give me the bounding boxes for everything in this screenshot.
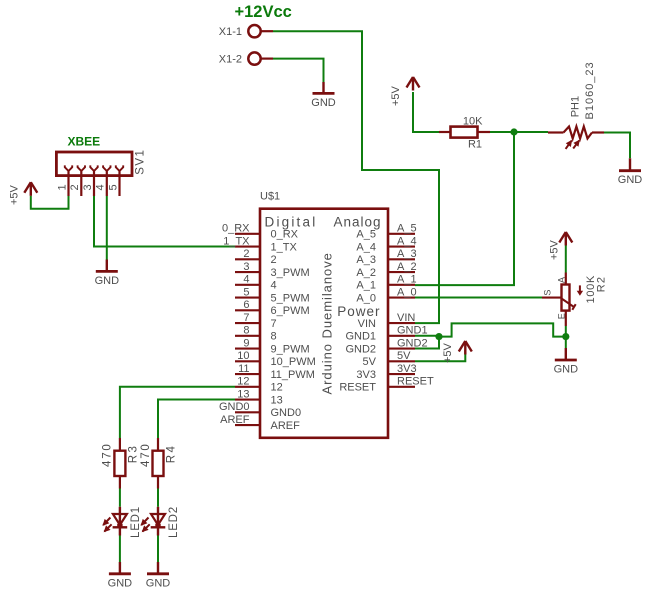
svg-text:GND1: GND1 <box>345 331 376 343</box>
svg-text:A_2: A_2 <box>356 267 376 279</box>
svg-text:8: 8 <box>271 331 277 343</box>
svg-text:7: 7 <box>271 318 277 330</box>
svg-text:+5V: +5V <box>390 85 402 106</box>
svg-text:10K: 10K <box>463 115 483 127</box>
svg-text:PH1: PH1 <box>570 96 582 117</box>
svg-text:9: 9 <box>243 337 249 349</box>
svg-text:3V3: 3V3 <box>356 369 376 381</box>
svg-text:VIN: VIN <box>358 318 376 330</box>
svg-text:SV1: SV1 <box>135 149 147 175</box>
svg-text:5_PWM: 5_PWM <box>271 292 310 304</box>
svg-text:2: 2 <box>271 254 277 266</box>
svg-text:2: 2 <box>243 248 249 260</box>
svg-text:3: 3 <box>243 261 249 273</box>
svg-text:B1060_23: B1060_23 <box>584 61 596 119</box>
svg-text:AREF: AREF <box>220 414 250 426</box>
svg-text:12: 12 <box>271 382 283 394</box>
svg-text:5: 5 <box>107 184 119 190</box>
svg-text:A_1: A_1 <box>397 274 417 286</box>
svg-text:10_PWM: 10_PWM <box>271 356 316 368</box>
svg-text:A_5: A_5 <box>356 229 376 241</box>
svg-text:3V3: 3V3 <box>397 363 417 375</box>
svg-text:GND: GND <box>146 577 171 589</box>
svg-text:470: 470 <box>140 442 152 467</box>
svg-text:A_0: A_0 <box>356 292 376 304</box>
svg-text:E: E <box>557 313 567 319</box>
svg-text:5V: 5V <box>363 356 377 368</box>
svg-text:12: 12 <box>237 376 249 388</box>
svg-text:10: 10 <box>237 350 249 362</box>
svg-text:AREF: AREF <box>271 420 301 432</box>
svg-text:GND0: GND0 <box>219 401 250 413</box>
svg-text:5: 5 <box>243 286 249 298</box>
svg-text:470: 470 <box>102 442 114 467</box>
svg-text:A_3: A_3 <box>356 254 376 266</box>
svg-text:GND0: GND0 <box>271 407 302 419</box>
svg-text:A_2: A_2 <box>397 261 417 273</box>
svg-text:13: 13 <box>237 388 249 400</box>
svg-text:+5V: +5V <box>442 342 454 363</box>
svg-text:R3: R3 <box>128 444 140 464</box>
svg-text:+12Vcc: +12Vcc <box>235 3 292 21</box>
svg-text:A_3: A_3 <box>397 248 417 260</box>
svg-text:0_RX: 0_RX <box>222 223 250 235</box>
svg-text:11: 11 <box>238 363 249 375</box>
svg-text:A_1: A_1 <box>356 280 376 292</box>
svg-text:LED2: LED2 <box>168 506 180 538</box>
svg-text:4: 4 <box>271 280 277 292</box>
svg-text:X1-2: X1-2 <box>219 53 242 65</box>
svg-text:A_5: A_5 <box>397 223 417 235</box>
svg-text:3_PWM: 3_PWM <box>271 267 310 279</box>
svg-text:RESET: RESET <box>397 376 434 388</box>
svg-text:8: 8 <box>243 325 249 337</box>
svg-text:LED1: LED1 <box>130 506 142 538</box>
svg-text:A_0: A_0 <box>397 286 417 298</box>
svg-text:R2: R2 <box>595 276 607 292</box>
svg-text:Arduino Duemilanove: Arduino Duemilanove <box>320 252 335 394</box>
svg-text:GND: GND <box>554 364 579 376</box>
svg-text:Analog: Analog <box>333 215 381 230</box>
svg-text:S: S <box>542 290 552 296</box>
svg-text:1_TX: 1_TX <box>223 235 250 247</box>
svg-text:VIN: VIN <box>397 312 415 324</box>
svg-text:U$1: U$1 <box>260 191 280 203</box>
svg-text:+5V: +5V <box>8 184 20 205</box>
svg-text:A: A <box>556 277 566 283</box>
svg-text:A_4: A_4 <box>356 241 376 253</box>
svg-text:9_PWM: 9_PWM <box>271 343 310 355</box>
svg-text:GND: GND <box>95 275 120 287</box>
svg-text:R4: R4 <box>166 444 178 464</box>
svg-text:X1-1: X1-1 <box>219 26 242 38</box>
svg-text:Digital: Digital <box>265 215 318 230</box>
svg-text:11_PWM: 11_PWM <box>271 369 315 381</box>
svg-text:4: 4 <box>243 274 249 286</box>
svg-text:6_PWM: 6_PWM <box>271 305 310 317</box>
svg-text:GND2: GND2 <box>345 343 376 355</box>
svg-text:GND: GND <box>618 174 643 186</box>
svg-text:RESET: RESET <box>339 382 376 394</box>
svg-text:1_TX: 1_TX <box>271 241 298 253</box>
svg-text:XBEE: XBEE <box>68 135 101 149</box>
svg-text:7: 7 <box>243 312 249 324</box>
svg-text:5V: 5V <box>397 350 411 362</box>
svg-text:+5V: +5V <box>549 239 561 260</box>
svg-text:R1: R1 <box>468 139 482 151</box>
svg-text:GND: GND <box>108 577 133 589</box>
svg-text:GND: GND <box>311 97 336 109</box>
svg-text:3: 3 <box>82 184 94 190</box>
svg-text:A_4: A_4 <box>397 235 417 247</box>
svg-text:13: 13 <box>271 394 283 406</box>
svg-text:6: 6 <box>243 299 249 311</box>
svg-text:4: 4 <box>95 184 107 190</box>
svg-text:0_RX: 0_RX <box>271 229 299 241</box>
svg-text:1: 1 <box>56 184 68 190</box>
svg-text:2: 2 <box>69 184 81 190</box>
svg-text:Power: Power <box>337 304 380 319</box>
